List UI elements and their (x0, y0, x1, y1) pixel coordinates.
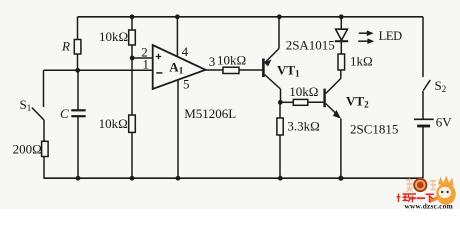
svg-text:A1: A1 (169, 60, 183, 76)
node: VT1 collector junction (278, 100, 283, 105)
wire: pin 3 output to 10k (206, 69, 224, 71)
watermark mascot body (436, 183, 456, 205)
svg-text:10kΩ: 10kΩ (99, 29, 128, 44)
watermark faint char right (430, 180, 437, 190)
resistor R (74, 40, 81, 55)
wire: S2 to battery (422, 91, 424, 119)
node: VT1 emitter on supply rail (277, 14, 282, 19)
wire: S1 to 200 ohm resistor (43, 120, 45, 142)
LED cathode bar (335, 40, 348, 42)
wire: bottom ground rail (44, 177, 424, 179)
svg-text:6V: 6V (436, 114, 453, 129)
watermark char xia (426, 194, 435, 202)
LED light arrow upper (359, 32, 369, 34)
wire: lower 10k to ground rail (131, 132, 133, 178)
wire: top supply rail (78, 16, 424, 18)
resistor 10k at op-amp output (223, 67, 239, 73)
wire: inverting input horizontal (S1 node to op-amp minus) (44, 69, 153, 71)
capacitor C bottom plate (71, 115, 85, 117)
resistor 10k upper divider (129, 30, 136, 45)
wire: pin 5 to ground rail (177, 80, 179, 178)
svg-text:3: 3 (209, 54, 216, 69)
wire: upper 10k to pin2 node (131, 45, 133, 58)
node: pin 2 junction (130, 56, 135, 61)
svg-text:3.3kΩ: 3.3kΩ (287, 119, 319, 134)
wire: VT1 collector down to junction (280, 89, 282, 102)
svg-text:10kΩ: 10kΩ (217, 53, 246, 68)
resistor 200R (42, 141, 49, 156)
svg-text:10kΩ: 10kΩ (99, 116, 128, 131)
node: pin4 on supply rail (175, 14, 180, 19)
svg-text:VT1: VT1 (277, 63, 300, 79)
wire: VT1 emitter up to supply rail (278, 17, 280, 49)
svg-text:C: C (60, 106, 69, 121)
svg-text:4: 4 (182, 44, 189, 59)
resistor 10k lower divider (129, 115, 136, 132)
wire: battery to ground rail (422, 126, 424, 178)
wire: R bottom to inverting node (77, 54, 79, 70)
wire: VT2 collector up to 1k (340, 70, 342, 79)
svg-text:10kΩ: 10kΩ (289, 84, 318, 99)
node: divider top on supply rail (130, 14, 135, 19)
transistor Q2 emitter diagonal with NPN arrow (326, 104, 339, 117)
node: capacitor on ground rail (76, 176, 81, 181)
svg-text:1: 1 (143, 56, 150, 71)
watermark char wei (397, 194, 409, 203)
wire: pin 4 from supply rail (176, 17, 178, 57)
svg-text:S2: S2 (435, 78, 447, 94)
wire: 10k to VT2 base (308, 101, 324, 103)
wire: 1k top to LED cathode (340, 42, 342, 54)
svg-text:5: 5 (183, 77, 190, 92)
wire: junction to VT2 base 10k (280, 101, 293, 103)
svg-text:R: R (61, 39, 70, 54)
LED light arrow lower (358, 40, 368, 42)
battery positive plate (414, 118, 434, 120)
LED triangle (336, 29, 348, 40)
watermark char ku (408, 194, 417, 202)
wire: 200 ohm to ground rail (43, 157, 45, 178)
wire: junction down to 3.3k (279, 102, 281, 118)
wire: 3.3k to ground rail (279, 135, 281, 178)
wire: pin2 node down to lower 10k (131, 58, 133, 115)
node: LED on supply rail (339, 14, 344, 19)
svg-text:200Ω: 200Ω (13, 141, 42, 156)
wire: node down to capacitor C (77, 70, 79, 110)
transistor Q2 base bar (323, 89, 325, 108)
switch S2 blade (423, 80, 430, 91)
watermark faint char left (406, 179, 414, 192)
watermark red seal circle (414, 179, 426, 191)
wire: rail to upper 10k resistor (131, 17, 133, 30)
transistor Q1 emitter diagonal with PNP arrow (265, 49, 280, 64)
node: lower 10k on ground rail (130, 176, 135, 181)
wire: output 10k to VT1 base (239, 69, 263, 71)
svg-text:LED: LED (379, 29, 402, 43)
transistor Q1 collector diagonal (265, 75, 281, 90)
watermark pencil (429, 190, 453, 203)
wire: capacitor to ground rail (77, 116, 79, 178)
label op-amp plus (156, 54, 161, 59)
wire: top rail to resistor R (77, 17, 79, 40)
svg-text:S1: S1 (20, 97, 32, 113)
wire: LED anode to supply rail (340, 17, 342, 29)
resistor 10k at VT2 base (293, 99, 308, 105)
wire: VT2 emitter down to ground rail (340, 119, 342, 179)
svg-text:2SC1815: 2SC1815 (350, 122, 398, 137)
svg-text:www.dzsc.com: www.dzsc.com (405, 202, 453, 210)
transistor Q2 collector diagonal (326, 79, 341, 94)
resistor 3.3k (277, 118, 283, 135)
resistor 1k (338, 54, 345, 70)
wire: supply rail right end down to S2 (422, 17, 424, 77)
wire: pin2 node to op-amp plus input (132, 57, 153, 59)
svg-text:M51206L: M51206L (184, 106, 236, 121)
node: VT2 emitter on ground rail (338, 176, 343, 181)
node: 3.3k on ground rail (278, 176, 283, 181)
transistor Q1 base bar (262, 59, 265, 78)
watermark: dzsc.com logo bottom right (397, 176, 456, 211)
node: R / C / S1 / pin1 junction (75, 68, 80, 73)
node: pin5 on ground rail (176, 176, 181, 181)
watermark char yi (417, 197, 426, 199)
svg-text:1kΩ: 1kΩ (350, 54, 373, 69)
battery negative plate (417, 125, 430, 128)
switch S1 blade (32, 108, 44, 121)
capacitor C top plate (71, 109, 85, 111)
op-amp U1 triangle (153, 45, 206, 89)
label op-amp minus (156, 72, 162, 74)
svg-text:2SA1015: 2SA1015 (286, 38, 335, 53)
switch S1 upper lead (43, 70, 45, 107)
svg-text:VT2: VT2 (346, 94, 369, 110)
